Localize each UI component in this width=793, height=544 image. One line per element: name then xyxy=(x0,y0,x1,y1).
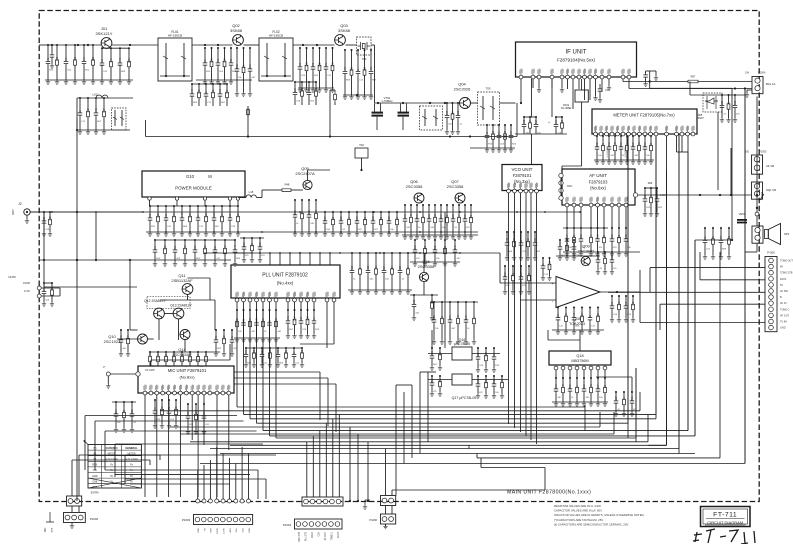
svg-text:L15: L15 xyxy=(249,190,254,194)
svg-text:(No.3xx): (No.3xx) xyxy=(514,179,530,184)
svg-text:M: M xyxy=(208,174,212,179)
svg-text:ANT: ANT xyxy=(11,209,15,215)
svg-text:R07: R07 xyxy=(447,110,449,115)
svg-text:R09: R09 xyxy=(190,213,192,218)
wire bus vertical x679 xyxy=(678,134,680,454)
svg-text:.001: .001 xyxy=(432,350,434,355)
svg-text:GND: GND xyxy=(249,528,251,533)
wire bus vertical x628 xyxy=(627,136,629,438)
PLL loop filter resistor bank xyxy=(236,310,238,320)
transistor Q09 2SC3902 xyxy=(581,256,590,265)
svg-text:(k) CAPACITORS ARE SEMICONDUCT: (k) CAPACITORS ARE SEMICONDUCTOR CERAMIC… xyxy=(554,522,629,526)
front-end gate cluster xyxy=(102,47,129,49)
svg-text:TONE OUT: TONE OUT xyxy=(780,260,793,263)
svg-text:.047: .047 xyxy=(278,349,280,354)
svg-text:2SC3358: 2SC3358 xyxy=(418,264,435,269)
AF right cluster xyxy=(611,228,613,236)
wire feeds to P-500 jack xyxy=(650,267,765,269)
wire bus vertical x735 xyxy=(695,239,732,241)
input filter dashed box L03 xyxy=(420,106,443,130)
svg-text:.001: .001 xyxy=(639,141,641,146)
svg-text:3SK88: 3SK88 xyxy=(338,28,351,33)
svg-text:R07: R07 xyxy=(104,108,106,113)
wire pm out rail2 xyxy=(146,231,478,233)
IF unit pin row xyxy=(519,75,523,79)
wire mic top feeds xyxy=(150,360,152,366)
Q06 Q07 coupling cluster xyxy=(404,205,406,216)
svg-text:RAD: RAD xyxy=(567,185,572,188)
svg-text:.047: .047 xyxy=(563,383,565,388)
svg-text:13.8V: 13.8V xyxy=(8,275,16,279)
svg-text:SQL VR: SQL VR xyxy=(766,188,776,192)
svg-text:C12: C12 xyxy=(414,299,416,304)
Q18 lower cluster xyxy=(555,378,557,386)
wire mic pin drops to border xyxy=(144,395,146,497)
P1002 stub wires xyxy=(71,506,73,512)
svg-text:3SK121Y: 3SK121Y xyxy=(96,31,113,36)
transistor Q15 2SC3358 xyxy=(419,272,428,281)
trimmer VT03 (fat cap, mid right) xyxy=(737,219,747,221)
P1006 stub xyxy=(385,506,387,515)
svg-text:EXTRA: EXTRA xyxy=(91,492,99,495)
svg-text:R09: R09 xyxy=(199,89,201,94)
svg-text:8V: 8V xyxy=(780,266,783,269)
wire speaker vertical x757 xyxy=(756,97,758,227)
svg-text:C12: C12 xyxy=(302,349,304,354)
resistor R57 inline xyxy=(688,80,698,83)
svg-text:R07: R07 xyxy=(567,234,569,239)
AF decoupling cluster xyxy=(566,228,568,236)
svg-text:R07: R07 xyxy=(384,265,386,270)
svg-text:HF-195CB: HF-195CB xyxy=(168,34,182,38)
routing center drops to border xyxy=(349,427,351,501)
svg-text:P1004: P1004 xyxy=(283,523,292,527)
wire Q02 tail to rail xyxy=(247,106,249,137)
wire pm pins to rail xyxy=(149,200,151,206)
transistor Q02 3SK88 xyxy=(233,35,244,46)
svg-text:R15: R15 xyxy=(632,396,634,401)
svg-text:.001: .001 xyxy=(214,212,216,217)
wire mic right outputs xyxy=(234,371,320,373)
svg-text:R09: R09 xyxy=(352,265,354,270)
svg-text:C03: C03 xyxy=(260,242,262,247)
wire Q05 collector up xyxy=(307,170,309,180)
svg-text:HF-195CB: HF-195CB xyxy=(269,34,283,38)
svg-text:R09: R09 xyxy=(582,312,584,317)
Q09 collector parts xyxy=(597,252,599,257)
svg-text:C12: C12 xyxy=(365,66,367,71)
svg-text:GND: GND xyxy=(92,475,98,478)
svg-text:INDUCTOR VALUES ARE IN HENRYS,: INDUCTOR VALUES ARE IN HENRYS, UNLESS OT… xyxy=(554,513,645,517)
svg-text:R15: R15 xyxy=(735,100,737,105)
IF discriminator parts xyxy=(524,116,536,118)
svg-text:C12: C12 xyxy=(309,210,311,215)
wire crystal to vertical drop xyxy=(371,44,375,46)
transistor Q03 3SK88 xyxy=(335,35,346,46)
svg-text:R22: R22 xyxy=(633,301,635,306)
svg-text:.001: .001 xyxy=(591,383,593,388)
MIC unit pin row xyxy=(143,391,147,395)
svg-text:R07: R07 xyxy=(567,242,569,247)
IC Q18 pin row xyxy=(554,366,558,370)
svg-text:2SC2026: 2SC2026 xyxy=(454,86,471,91)
IF unit block U-IF xyxy=(516,42,637,77)
svg-text:µPC78L06: µPC78L06 xyxy=(454,342,470,346)
wire Q02 to FL02 xyxy=(244,44,260,46)
svg-text:F2879101: F2879101 xyxy=(513,173,533,178)
regulator Q16 uPC78L06 xyxy=(452,347,472,360)
svg-text:GND: GND xyxy=(780,327,786,330)
wire vco pin drops xyxy=(508,193,510,232)
svg-text:C12: C12 xyxy=(213,89,215,94)
svg-text:C41: C41 xyxy=(405,214,407,219)
wire pll drops to mic xyxy=(326,310,328,348)
svg-text:R09: R09 xyxy=(570,384,572,389)
svg-text:C03: C03 xyxy=(75,56,77,61)
svg-text:C28: C28 xyxy=(581,234,583,239)
meter unit decoupling cluster xyxy=(596,136,598,144)
svg-text:.001: .001 xyxy=(316,209,318,214)
wire q12q13 links xyxy=(164,313,173,315)
svg-text:.047: .047 xyxy=(345,66,347,71)
wire xtal filter to IF unit xyxy=(500,102,516,104)
svg-text:.047: .047 xyxy=(721,235,723,240)
svg-text:Q17 µPC78L05: Q17 µPC78L05 xyxy=(452,396,477,400)
svg-text:.001: .001 xyxy=(96,107,98,112)
svg-text:C03: C03 xyxy=(521,272,523,277)
connector P1004 border feedthrough xyxy=(302,497,343,506)
transistor Q04 2SC2026 xyxy=(460,98,471,109)
svg-text:C41: C41 xyxy=(333,62,335,67)
svg-text:R09: R09 xyxy=(729,235,731,240)
power module block G10 xyxy=(142,171,245,197)
wire FL01 to Q02 xyxy=(192,44,233,46)
AF unit block U-AF xyxy=(562,169,635,205)
svg-text:.001: .001 xyxy=(432,299,434,304)
wire q18 pin drops xyxy=(555,370,557,378)
connector P1003 xyxy=(194,515,253,525)
svg-text:R22: R22 xyxy=(434,315,436,320)
svg-text:C28: C28 xyxy=(308,316,310,321)
dashed label box Q12Q13 xyxy=(147,297,190,309)
Q03 drain cluster xyxy=(344,50,346,69)
svg-text:R07: R07 xyxy=(295,316,297,321)
wire bus vertical x656 xyxy=(655,136,657,419)
svg-text:5V: 5V xyxy=(780,284,783,287)
svg-text:G10: G10 xyxy=(186,174,195,179)
svg-text:R15: R15 xyxy=(465,214,467,219)
connector P1001 (on border, antenna side) xyxy=(67,496,82,506)
svg-text:C28: C28 xyxy=(174,353,176,358)
wire q11 links xyxy=(187,294,189,300)
svg-text:R07: R07 xyxy=(227,89,229,94)
low band C cluster xyxy=(79,98,81,110)
trimmer VT01 (fat cap) xyxy=(372,112,384,114)
wire PLL feed vertical x130 xyxy=(129,260,131,330)
wire IF to meter vertical xyxy=(572,79,574,109)
opamp lower cluster xyxy=(557,308,559,315)
svg-text:.047: .047 xyxy=(615,141,617,146)
mic left cluster xyxy=(115,402,117,411)
speaker SP1 xyxy=(765,230,769,239)
svg-text:R22: R22 xyxy=(158,213,160,218)
svg-text:C28: C28 xyxy=(486,352,488,357)
svg-text:R07: R07 xyxy=(536,119,538,124)
svg-text:DATA: DATA xyxy=(311,532,314,538)
svg-text:AF OUT: AF OUT xyxy=(324,531,327,540)
wire IF left edge drop xyxy=(516,103,518,137)
svg-text:C03: C03 xyxy=(225,58,227,63)
svg-text:VOL: VOL xyxy=(242,527,244,532)
wire border bus bottom-left xyxy=(76,496,78,501)
svg-text:CH8: CH8 xyxy=(92,480,97,483)
AF unit left pin column xyxy=(559,173,563,177)
svg-text:C03: C03 xyxy=(185,245,187,250)
svg-text:P1002: P1002 xyxy=(90,517,99,521)
wire opamp gnd rail xyxy=(552,329,604,331)
wire Q02 area rails xyxy=(196,79,252,81)
routing verticals from regulators xyxy=(395,385,397,496)
svg-text:R09: R09 xyxy=(621,142,623,147)
svg-text:R22: R22 xyxy=(254,349,256,354)
svg-text:0.47V(10k): 0.47V(10k) xyxy=(625,146,627,157)
Q05 output cluster xyxy=(324,212,326,218)
svg-text:C12: C12 xyxy=(584,384,586,389)
svg-text:PLL UNIT F2879102: PLL UNIT F2879102 xyxy=(262,273,308,279)
Q16 output parts xyxy=(477,348,479,354)
speaker SP1 connector xyxy=(752,226,763,243)
wire q06 lower rail xyxy=(410,261,460,263)
power module pin row xyxy=(148,197,151,200)
svg-text:R09: R09 xyxy=(466,315,468,320)
svg-text:C41: C41 xyxy=(111,58,113,63)
svg-text:R07: R07 xyxy=(440,351,442,356)
svg-text:R07: R07 xyxy=(325,216,327,221)
svg-text:R22: R22 xyxy=(389,216,391,221)
svg-text:C12: C12 xyxy=(368,265,370,270)
AF unit bottom pin row xyxy=(565,203,569,207)
routing bus left drops xyxy=(84,416,86,471)
svg-text:R07: R07 xyxy=(116,409,118,414)
svg-text:C41: C41 xyxy=(609,142,611,147)
svg-text:J05: J05 xyxy=(745,150,750,154)
wire pll pin drops xyxy=(236,302,238,310)
IC Q18 MB3756M xyxy=(549,351,611,365)
wire low band rail bottom xyxy=(77,129,130,131)
wire Q04 out rail xyxy=(470,147,515,149)
svg-text:P2004: P2004 xyxy=(758,71,766,75)
svg-text:R48: R48 xyxy=(285,183,290,187)
svg-text:PTT: PTT xyxy=(51,527,54,532)
svg-text:C12: C12 xyxy=(524,119,526,124)
transistor Q05 2SC2407A xyxy=(303,180,312,189)
svg-text:.001: .001 xyxy=(288,315,290,320)
wire pm input xyxy=(39,211,142,213)
connector P1002 xyxy=(64,513,86,523)
svg-text:2SC2407A: 2SC2407A xyxy=(295,171,315,176)
wire J01 to FL01 xyxy=(112,44,158,46)
svg-text:R15: R15 xyxy=(190,353,192,358)
svg-text:P2005: P2005 xyxy=(759,150,767,154)
svg-text:C28: C28 xyxy=(616,396,618,401)
wire Q04 to xtal filter xyxy=(471,102,478,104)
transistor Q06 2SC3358 xyxy=(414,193,424,203)
wire mixer rail y103 xyxy=(375,102,460,104)
AF unit right output pin xyxy=(633,193,637,197)
svg-text:DATA: DATA xyxy=(780,278,787,281)
svg-text:R07: R07 xyxy=(598,384,600,389)
antenna jack J01-ANT xyxy=(24,209,30,215)
svg-text:.047: .047 xyxy=(182,212,184,217)
svg-text:SQL: SQL xyxy=(236,527,238,532)
svg-text:MIC: MIC xyxy=(44,528,47,533)
transistor Q13 2SA812Y xyxy=(173,308,184,319)
svg-text:R15: R15 xyxy=(612,255,614,260)
svg-text:PLL STB: PLL STB xyxy=(306,532,308,542)
wire IF pin to XF01 xyxy=(581,79,583,90)
svg-text:.001: .001 xyxy=(371,66,373,71)
wire opamp out xyxy=(608,291,640,293)
svg-text:C41: C41 xyxy=(556,384,558,389)
PLL unit pin row xyxy=(235,298,239,302)
wire AF pins drops xyxy=(566,207,568,228)
svg-text:R15: R15 xyxy=(598,234,600,239)
svg-text:GENERAL: GENERAL xyxy=(125,447,138,450)
transistor Q10 2SC1923 xyxy=(138,334,148,344)
meter long drops to AF area xyxy=(666,136,668,171)
transistor Q07 2SC3358 xyxy=(455,193,465,203)
meter input diode parts xyxy=(721,95,723,103)
ground at P2004 xyxy=(745,93,749,97)
svg-text:1SS97: 1SS97 xyxy=(696,117,704,120)
Q02 lower bias cluster xyxy=(192,83,227,85)
svg-text:.001: .001 xyxy=(560,241,562,246)
svg-text:R15: R15 xyxy=(432,378,434,383)
svg-text:C41: C41 xyxy=(713,235,715,240)
svg-text:C28: C28 xyxy=(562,119,564,124)
L02 low band coil section xyxy=(77,97,133,99)
varactor dashed box D01 xyxy=(112,108,127,130)
svg-text:C03: C03 xyxy=(651,194,653,199)
svg-text:D09: D09 xyxy=(648,182,653,185)
svg-text:R15: R15 xyxy=(212,58,214,63)
Q09 bias parts xyxy=(559,240,561,244)
wire af rail xyxy=(563,227,608,229)
Q17 output parts xyxy=(477,376,479,381)
svg-text:5V: 5V xyxy=(130,481,133,483)
svg-text:C03: C03 xyxy=(206,353,208,358)
svg-text:C28: C28 xyxy=(238,213,240,218)
svg-text:R07: R07 xyxy=(158,353,160,358)
svg-text:MIC UNIT F2879101: MIC UNIT F2879101 xyxy=(168,368,207,373)
VCO decoupling cluster xyxy=(506,232,508,240)
svg-text:R15: R15 xyxy=(493,130,495,135)
wire FL02 to Q03 xyxy=(293,44,335,46)
svg-text:+: + xyxy=(548,121,550,125)
svg-text:P2008: P2008 xyxy=(23,282,31,285)
svg-text:MB3756M: MB3756M xyxy=(571,359,588,363)
svg-text:Q13 2SA812Y: Q13 2SA812Y xyxy=(170,304,192,308)
svg-text:R22: R22 xyxy=(597,142,599,147)
wire IF pin14 to P2004 upper xyxy=(622,79,624,82)
svg-text:C28: C28 xyxy=(132,409,134,414)
mid rail y253 xyxy=(204,252,500,254)
svg-text:R22: R22 xyxy=(93,56,95,61)
wire bus vertical x585 xyxy=(584,405,586,431)
wire q14 links xyxy=(184,340,186,353)
ceramic filter CF01 (dashed) xyxy=(478,92,500,125)
svg-text:SP AMP: SP AMP xyxy=(145,368,155,372)
wire reg vertical feeds xyxy=(431,330,433,348)
svg-text:.047: .047 xyxy=(192,88,194,93)
FT-711 title box xyxy=(701,507,751,527)
svg-text:.047: .047 xyxy=(411,213,413,218)
svg-text:C03: C03 xyxy=(373,216,375,221)
wire IF pin1 drop xyxy=(520,79,522,103)
svg-text:C28: C28 xyxy=(598,255,600,260)
Q03 lower bias cluster xyxy=(295,81,316,83)
routing verticals center from PLL xyxy=(236,310,238,407)
wire XF01 to AF unit xyxy=(581,102,583,166)
svg-text:VCO UNIT: VCO UNIT xyxy=(512,167,533,172)
svg-text:.047: .047 xyxy=(458,314,460,319)
svg-text:FT-711: FT-711 xyxy=(713,512,737,519)
svg-text:SP1: SP1 xyxy=(784,232,790,236)
opamp output cluster xyxy=(611,296,613,303)
svg-text:F2879103: F2879103 xyxy=(589,180,609,185)
svg-text:Q18: Q18 xyxy=(576,354,583,358)
svg-text:C28: C28 xyxy=(50,216,52,221)
svg-text:13.8V(DC): 13.8V(DC) xyxy=(106,447,118,450)
svg-text:C28: C28 xyxy=(400,265,402,270)
diode pair D09 1SS97 xyxy=(645,187,657,189)
routing drops to P1003 xyxy=(197,470,199,499)
FL02-Q03 interstage cluster xyxy=(299,48,301,64)
ceramic filter XF01 CF-455E xyxy=(575,90,588,102)
svg-text:CAPACITOR VALUES ARE IN µF, 50: CAPACITOR VALUES ARE IN µF, 50V. xyxy=(554,509,603,513)
svg-text:R22: R22 xyxy=(237,64,239,69)
wire mid rail y302 xyxy=(430,301,478,303)
svg-text:C41: C41 xyxy=(174,213,176,218)
crystal X01 (dashed enclosure) xyxy=(357,37,372,55)
speaker feed parts xyxy=(704,228,706,238)
svg-text:R22: R22 xyxy=(205,245,207,250)
svg-text:(No.6xx): (No.6xx) xyxy=(590,186,606,191)
svg-text:R09: R09 xyxy=(129,58,131,63)
svg-text:C28: C28 xyxy=(458,110,460,115)
svg-text:RX8V: RX8V xyxy=(217,527,219,533)
svg-text:F2879104(No.5xx): F2879104(No.5xx) xyxy=(557,58,596,63)
svg-text:CIRCUIT DIAGRAM: CIRCUIT DIAGRAM xyxy=(707,520,743,525)
PLL unit block U-PLL xyxy=(231,265,340,298)
svg-text:R09: R09 xyxy=(352,66,354,71)
svg-text:T05: T05 xyxy=(486,87,491,91)
svg-text:.001: .001 xyxy=(435,213,437,218)
transistor Q12 2SA812Y xyxy=(154,308,165,319)
svg-text:CF-455E: CF-455E xyxy=(561,106,572,110)
wire IF long vertical to VCO xyxy=(531,134,533,165)
wire antenna to front-end xyxy=(39,44,52,46)
wire left border stub y45 xyxy=(51,45,53,52)
svg-text:C41: C41 xyxy=(250,64,252,69)
svg-text:BAL 1A: BAL 1A xyxy=(766,82,776,86)
svg-text:R09: R09 xyxy=(295,210,297,215)
connector J06/P2006 (SQL VR) xyxy=(752,182,763,199)
svg-text:METER UNIT F2879105(No.7xx): METER UNIT F2879105(No.7xx) xyxy=(613,113,675,118)
svg-text:TX8V: TX8V xyxy=(211,527,213,533)
svg-text:R57: R57 xyxy=(691,75,696,79)
nested routing bus horizontals xyxy=(237,406,585,408)
